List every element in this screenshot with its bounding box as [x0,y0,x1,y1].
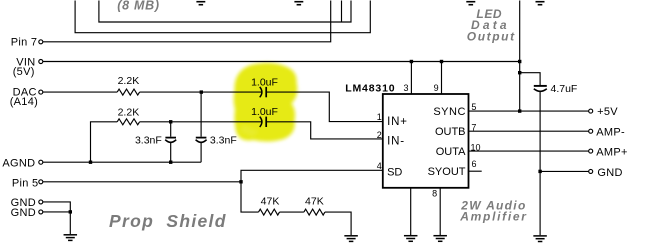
terminal AMP- [589,129,593,133]
wire C1 to IN+ [266,92,383,122]
ground (chip bottom left) [404,236,418,242]
node dot AGND riser [89,161,92,164]
terminal Pin 5 [39,180,43,184]
svg-text:3: 3 [403,83,408,93]
wire AMP- [469,130,589,132]
svg-text:10: 10 [471,142,481,152]
pin 6 stub SYOUT [469,170,482,172]
wire GND out [540,170,589,172]
capacitor 3.3nF (right) [196,137,207,139]
wire pin 3 to VIN [410,62,412,95]
wire AMP+ [469,150,589,152]
svg-text:47K: 47K [305,195,324,207]
wire 4.7uF branch [520,73,540,86]
terminal GND 2 [39,210,43,214]
svg-text:SD: SD [387,167,402,179]
capacitor 4.7uF [534,85,547,87]
node dot 3.3nF (left) branch [169,120,172,123]
terminal GND 1 [39,200,43,204]
svg-text:+5V: +5V [597,106,618,118]
node dot Pin5/SD junction [239,180,242,183]
wire 47K to ground [325,212,351,235]
wire +5V [469,110,589,112]
svg-text:47K: 47K [261,195,280,207]
svg-text:Pin 5: Pin 5 [12,177,39,189]
svg-text:7: 7 [471,122,476,132]
resistor 47K (right) [304,209,325,215]
node dot 4.7uF line / GND [538,170,541,173]
ground (inside flash box, left) [196,2,205,5]
svg-text:4: 4 [377,161,382,171]
svg-text:4.7uF: 4.7uF [551,83,578,95]
wire C2 to IN- [266,122,383,139]
wire GND 1 [43,202,71,212]
svg-text:1.0uF: 1.0uF [251,106,278,118]
wire Pin 7 riser [43,1,331,42]
node dot riser/+5V [518,109,521,112]
svg-text:AMP+: AMP+ [596,147,627,159]
svg-text:IN+: IN+ [387,116,408,128]
svg-text:3.3nF: 3.3nF [210,135,237,147]
svg-text:AGND: AGND [2,158,35,170]
terminal AGND [39,160,43,164]
wire AGND [43,161,201,163]
wire stub into flash box bottom [341,1,343,23]
svg-text:Output: Output [467,30,516,44]
outer box (audio module outline) [75,1,370,33]
svg-text:GND: GND [11,207,36,219]
terminal +5V [589,109,593,113]
wire between 47K resistors [280,211,304,213]
highlight over 1.0uF capacitors [234,63,298,142]
capacitor 3.3nF (left) [165,137,176,139]
svg-text:Amplifier: Amplifier [459,209,527,223]
terminal VIN [39,60,43,64]
wire branch down to 3.3nF (right) [200,92,202,137]
ground (GND pins) [64,235,78,241]
svg-text:AMP-: AMP- [596,127,625,139]
wire VIN [43,61,520,63]
svg-text:2.2K: 2.2K [118,106,140,118]
node dot DAC/3.3nF branch [200,90,203,93]
wire pin 8 to ground [439,188,441,235]
svg-text:OUTA: OUTA [436,146,466,158]
resistor 47K (left) [259,209,280,215]
wire DAC to resistor [43,91,117,93]
svg-text:6: 6 [472,159,477,169]
terminal AMP+ [589,149,593,153]
wire AGND riser to lower RC [91,122,118,162]
wire resistor to C2 [140,121,262,123]
ground (pin 8) [433,236,447,242]
node dot riser/4.7uF branch [518,71,521,74]
ground (47K) [344,236,358,242]
svg-text:3.3nF: 3.3nF [135,135,162,147]
wire Pin 5 [43,181,241,183]
svg-text:5: 5 [471,102,476,112]
capacitor 1.0uF C1 [260,87,262,97]
svg-text:IN-: IN- [387,135,405,147]
svg-text:Prop Shield: Prop Shield [109,211,227,231]
capacitor 1.0uF C2 [260,117,262,127]
terminal GND out [589,169,593,173]
node dot 3.3nF (left) at AGND [169,161,172,164]
ground (inside flash box, right) [294,2,303,5]
svg-text:2.2K: 2.2K [118,75,140,87]
svg-text:(A14): (A14) [10,96,38,108]
svg-text:2: 2 [377,130,382,140]
wire chip bottom pin (left) to ground [410,188,412,235]
svg-text:(5V): (5V) [13,66,35,78]
ground (4.7uF) [533,236,547,242]
svg-text:OUTB: OUTB [435,126,466,138]
terminal Pin 7 [39,40,43,44]
terminal DAC [39,90,43,94]
wire SD to riser [241,170,383,212]
wire branch down to 3.3nF (left) [170,122,172,137]
svg-text:1.0uF: 1.0uF [251,76,278,88]
wire GND 2 [43,212,71,234]
ground (top, right) [536,2,545,5]
svg-text:(8 MB): (8 MB) [117,0,159,13]
node dot pin9/VIN [440,60,443,63]
op-amp U1 LM48310 body [383,94,469,188]
wire pin 9 to VIN [441,62,443,95]
svg-text:1: 1 [377,112,382,122]
node dot VIN/riser [518,60,521,63]
wire resistor to C1 [140,91,262,93]
node dot GND join [69,210,72,213]
ground (top, LED data) [466,2,475,5]
resistor 2.2K (upper) [117,89,139,95]
resistor 2.2K (lower) [117,119,139,125]
node dot pin3/VIN [410,60,413,63]
wire LED data riser [519,1,521,112]
svg-text:8: 8 [432,189,437,199]
svg-text:LM48310: LM48310 [345,83,395,95]
svg-text:9: 9 [434,83,439,93]
svg-text:Pin 7: Pin 7 [11,37,38,49]
svg-text:SYOUT: SYOUT [428,166,466,178]
wire 4.7uF down to ground [539,91,541,235]
svg-text:GND: GND [597,167,622,179]
svg-text:SYNC: SYNC [433,106,466,118]
inner box (flash chip, 8 MB) [99,1,351,23]
